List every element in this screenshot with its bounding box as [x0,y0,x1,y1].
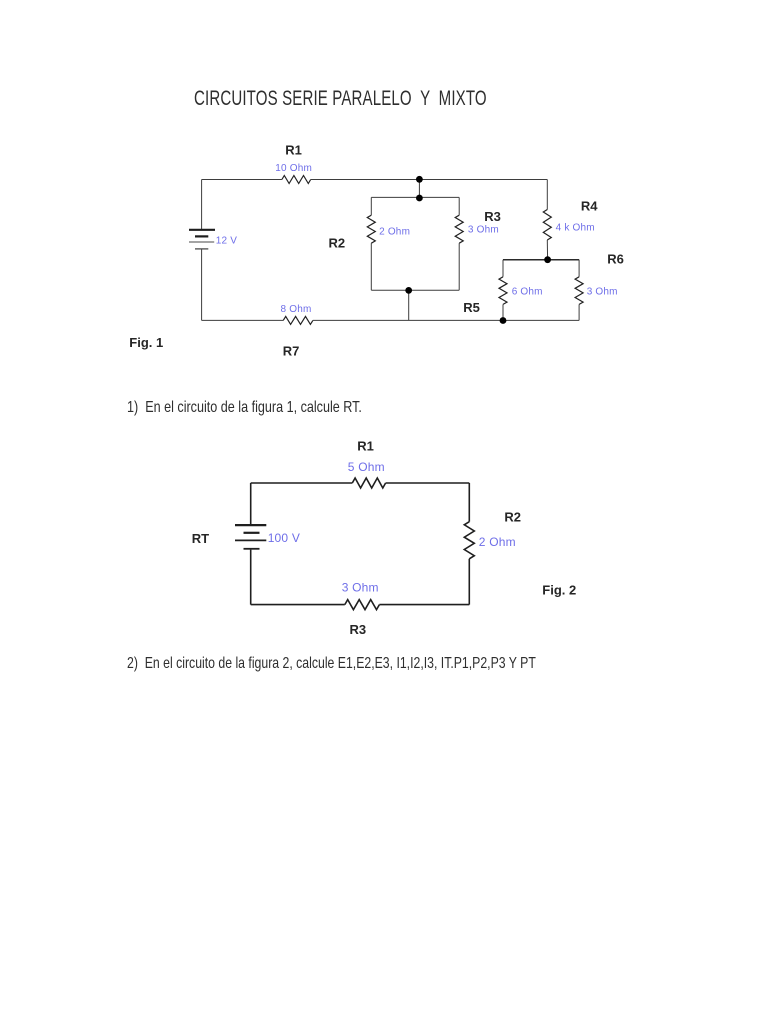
wire bottom rail right (R7 to right end) [313,319,579,321]
wire fig2 left lower (battery to bottom rail) [250,550,252,605]
wire fig2 left upper (top rail to battery) [250,483,252,524]
wire parallel box right lower [458,243,460,290]
battery RT plate long bottom [235,539,266,541]
wire left branch lower (battery to bottom rail) [201,250,203,321]
wire R4 branch lower [546,240,548,260]
svg-text:R1: R1 [285,142,302,157]
svg-text:R6: R6 [607,252,624,267]
svg-text:R7: R7 [283,344,300,359]
resistor R1 fig2 zigzag [352,478,385,488]
wire R6 branch lower [578,304,580,320]
battery RT plate short upper [244,532,260,534]
svg-text:R1: R1 [357,439,374,454]
svg-text:R3: R3 [350,622,367,637]
node dot box top [416,195,423,202]
svg-text:2 Ohm: 2 Ohm [479,535,516,549]
battery B1 plate long thin [189,241,214,243]
battery RT plate short lower [244,548,260,550]
svg-text:R2: R2 [504,510,521,525]
svg-text:3 Ohm: 3 Ohm [587,287,618,298]
resistor R4 zigzag [543,210,551,241]
wire fig2 top rail left [251,482,353,484]
svg-text:8 Ohm: 8 Ohm [281,304,312,315]
battery B1 plate short [195,235,208,237]
wire R5R6 box top edge [503,259,579,261]
battery B1 plate short thin [195,248,208,250]
resistor R7 zigzag [283,316,313,324]
wire R5 branch upper [502,260,504,277]
wire top rail right (R1 to R4 corner) [311,179,548,181]
wire fig2 bottom rail left [251,604,345,606]
battery B1 plate long top [189,229,215,231]
wire stub node B (box bottom to bottom rail) [408,290,410,320]
wire R5 branch lower [502,304,504,320]
resistor R6 zigzag [575,277,583,305]
svg-text:R4: R4 [581,198,598,213]
wire stub node A (top rail to parallel box) [418,179,420,198]
wire parallel box left lower [370,243,372,290]
wire parallel box right upper [458,197,460,215]
svg-text:5 Ohm: 5 Ohm [348,460,385,474]
resistor R2 fig2 zigzag [464,522,474,559]
title [194,88,487,110]
wire fig2 right upper [468,483,470,522]
wire fig2 bottom rail right [379,604,469,606]
wire R4 branch upper [546,180,548,210]
wire fig2 top rail right [386,482,470,484]
wire parallel box top edge [371,196,459,198]
wire fig2 right lower [468,559,470,605]
wire top rail left (battery to R1) [202,179,282,181]
node dot box bottom [405,287,412,294]
svg-text:3 Ohm: 3 Ohm [468,225,499,236]
svg-text:Fig. 2: Fig. 2 [542,583,576,598]
wire bottom rail left (battery to R7) [202,319,284,321]
wire R6 branch upper [578,260,580,277]
svg-text:R2: R2 [329,236,346,251]
node dot top rail [416,176,423,183]
svg-text:R5: R5 [463,300,480,315]
svg-text:4 k Ohm: 4 k Ohm [556,223,595,234]
resistor R3 fig2 zigzag [345,600,380,610]
resistor R5 zigzag [499,277,507,305]
wire parallel box bottom edge [371,289,459,291]
svg-text:2 Ohm: 2 Ohm [379,227,410,238]
node dot bottom rail [500,317,507,324]
svg-text:3 Ohm: 3 Ohm [342,580,379,594]
problem 2 text [127,655,536,673]
svg-text:Fig. 1: Fig. 1 [129,335,163,350]
svg-text:RT: RT [192,531,209,546]
problem 1 text [127,399,362,417]
svg-text:12 V: 12 V [216,235,238,246]
svg-text:10 Ohm: 10 Ohm [275,163,312,174]
battery RT plate long top [235,524,266,526]
resistor R1 zigzag [282,176,311,184]
svg-text:6 Ohm: 6 Ohm [512,287,543,298]
wire left branch upper (top rail to battery) [201,180,203,230]
node dot R4/R5R6 junction [544,256,551,263]
svg-text:100 V: 100 V [268,531,300,545]
wire parallel box left upper [370,197,372,215]
resistor R2 zigzag [367,215,375,243]
resistor R3 zigzag [455,215,463,243]
svg-text:R3: R3 [484,209,501,224]
